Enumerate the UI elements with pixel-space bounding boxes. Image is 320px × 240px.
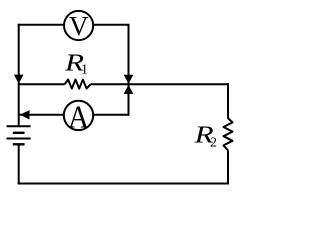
svg-text:A: A (68, 98, 89, 134)
wire right outer vertical upper (to R2) (227, 83, 229, 118)
wire top-left segment (battery node to voltmeter) (18, 24, 64, 26)
resistor R1 zigzag (65, 80, 91, 89)
svg-text:1: 1 (81, 62, 88, 77)
arrow up on inner-right wire below node A (124, 85, 134, 94)
wire ammeter branch right segment (93, 114, 130, 116)
battery cell plate short 1 (13, 132, 25, 134)
voltmeter V circle (64, 11, 93, 40)
wire R1 branch right segment (node A to right outer wire) (91, 83, 229, 85)
wire bottom horizontal (18, 183, 229, 185)
wire left vertical below battery (18, 144, 20, 184)
arrow left on ammeter branch (20, 110, 30, 119)
resistor R2 zigzag (224, 118, 233, 150)
battery cell plate long 2 (7, 138, 31, 140)
battery cell plate short 2 (13, 143, 25, 145)
wire ammeter branch left segment (19, 114, 64, 116)
wire right outer vertical lower (R2 to bottom) (227, 150, 229, 184)
svg-text:V: V (69, 11, 89, 41)
battery cell plate long 1 (7, 125, 31, 127)
wire left vertical (top corner down to battery +) (18, 24, 20, 127)
arrow down on inner-right wire at node A (124, 75, 134, 84)
arrow down on left wire at R1 node (14, 75, 24, 84)
wire R1 branch left segment (19, 83, 65, 85)
ammeter A circle (64, 101, 93, 130)
svg-text:2: 2 (210, 135, 217, 150)
wire inner-right vertical (top corner down to ammeter branch) (128, 24, 130, 115)
wire top-right segment (voltmeter to node A) (93, 24, 129, 26)
